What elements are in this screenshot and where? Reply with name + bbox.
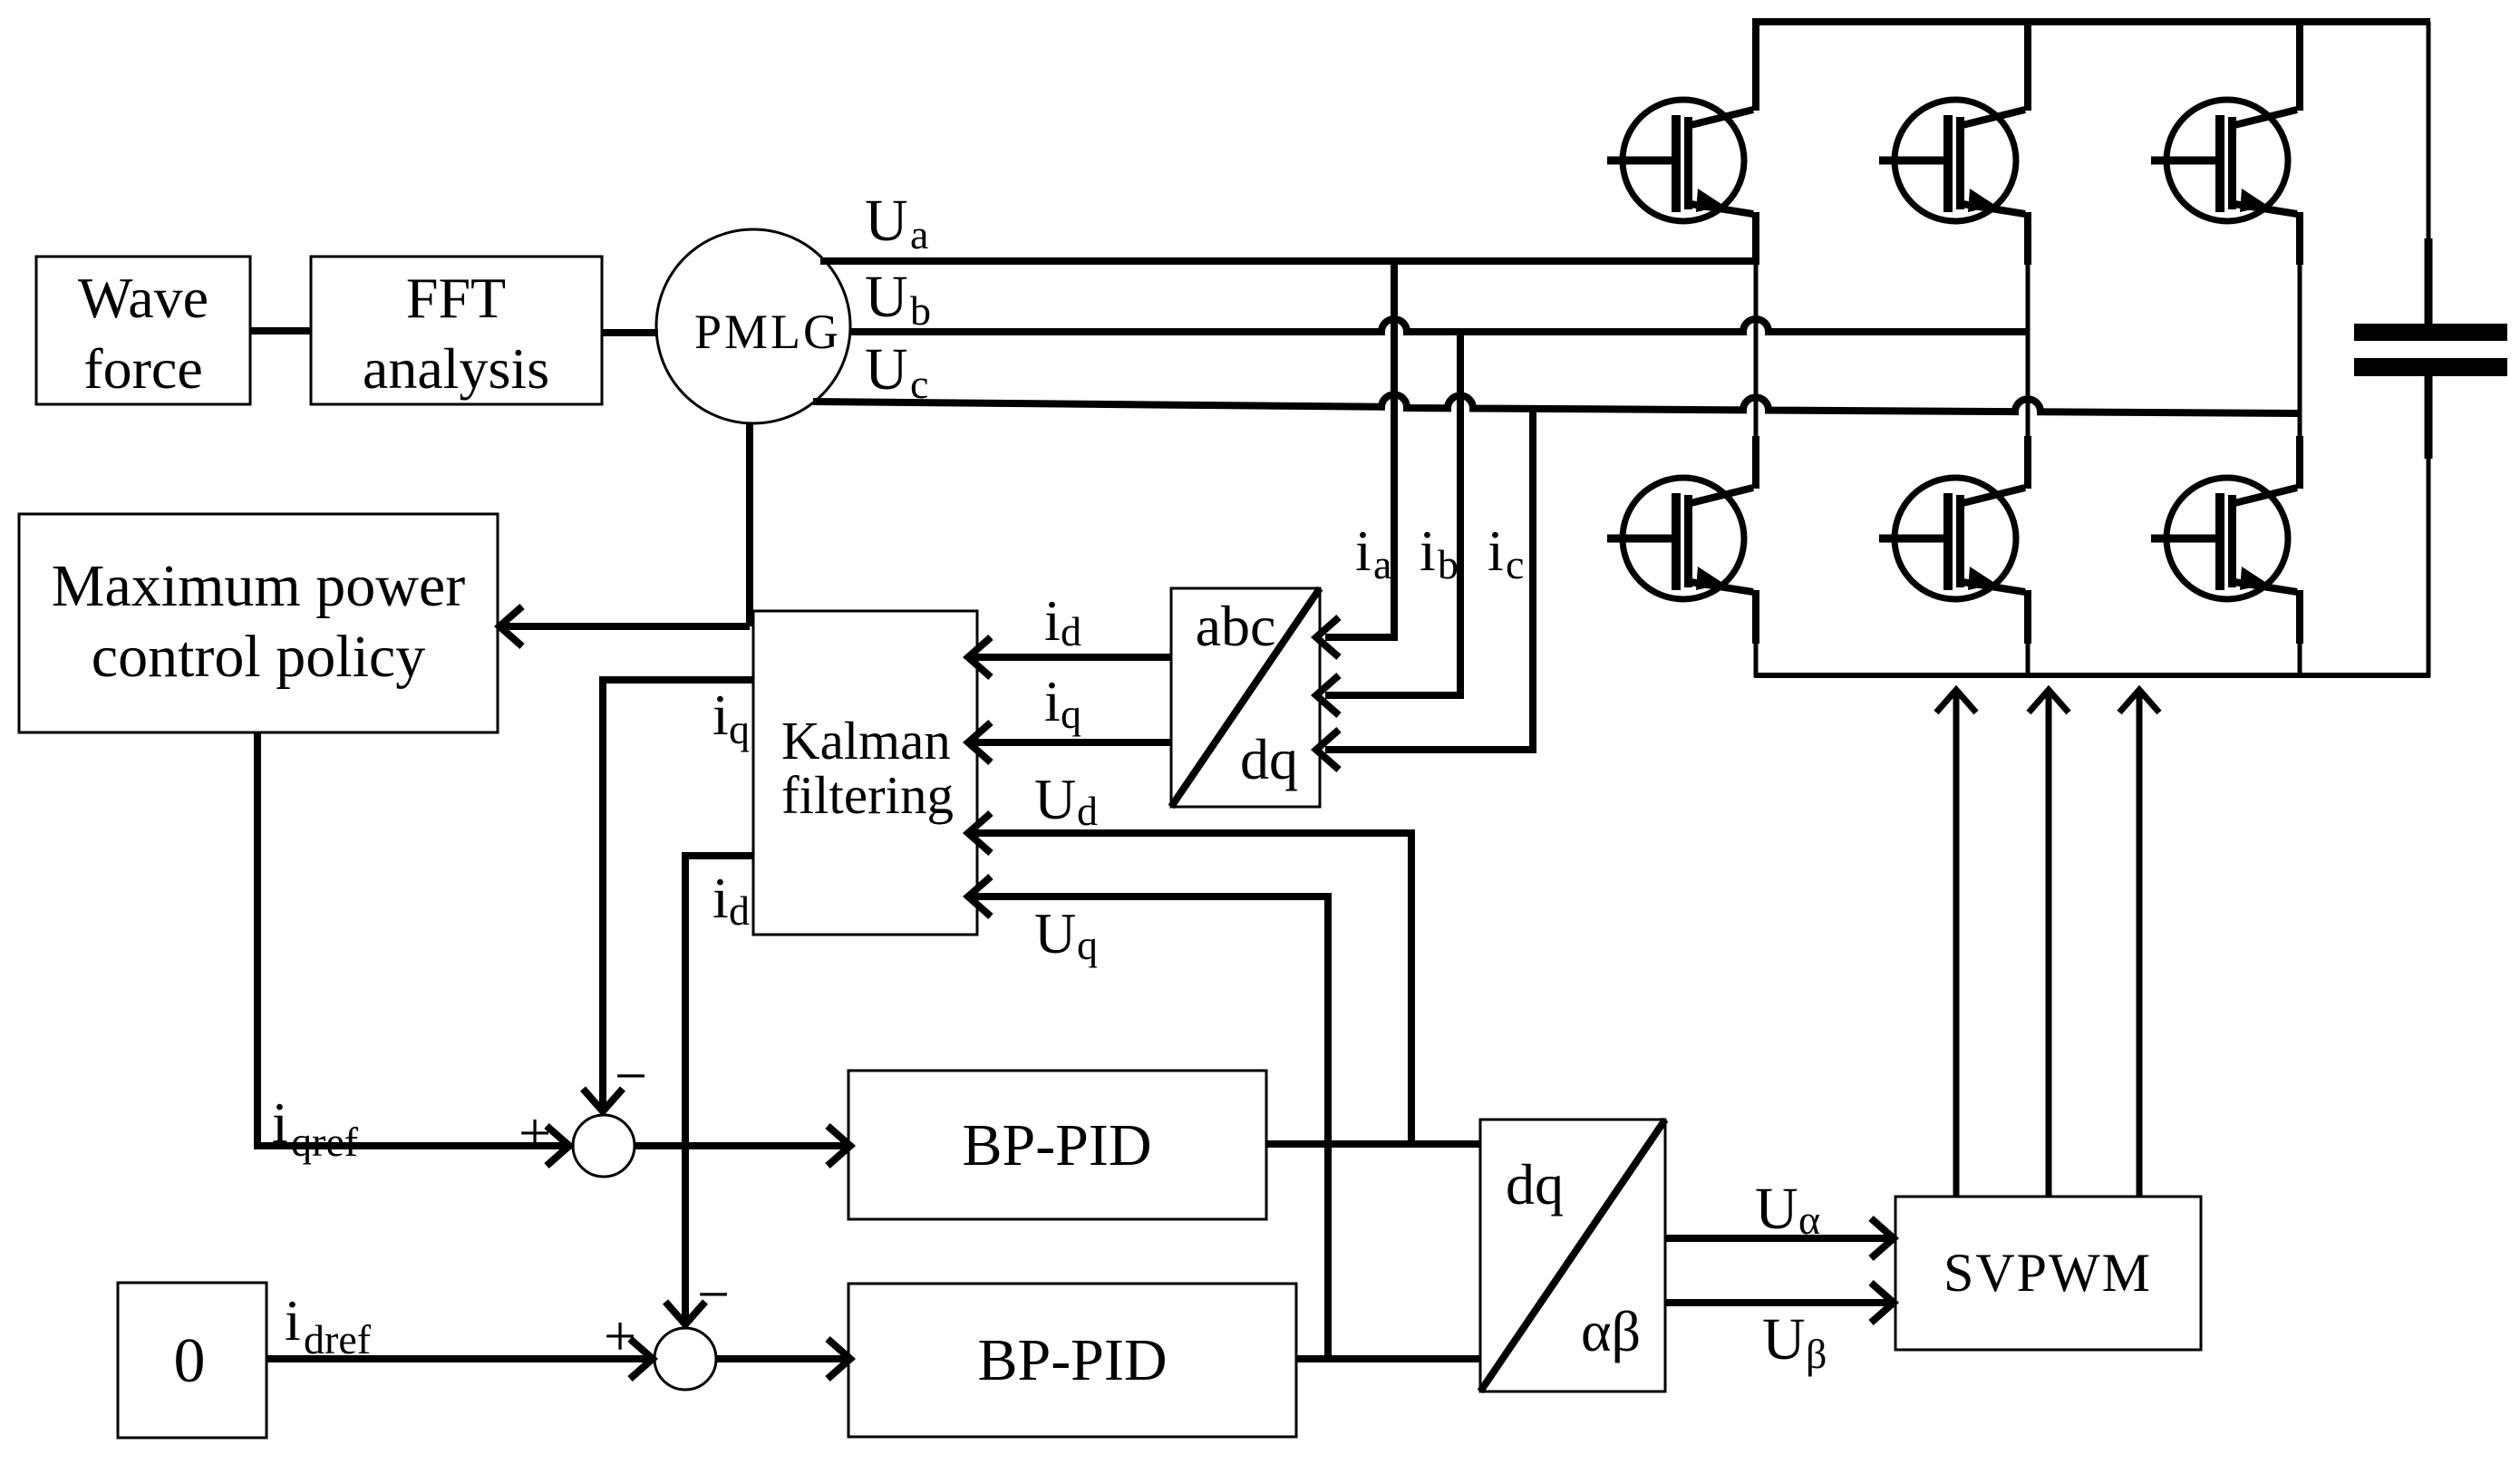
svg-text:Wave: Wave <box>78 266 208 330</box>
svg-text:U: U <box>865 264 908 330</box>
svg-text:U: U <box>865 336 908 402</box>
svg-text:d: d <box>1077 788 1098 834</box>
svg-text:qref: qref <box>291 1119 359 1165</box>
svg-text:i: i <box>272 1091 288 1155</box>
svg-text:U: U <box>1762 1306 1806 1372</box>
svg-text:a: a <box>910 211 928 257</box>
svg-text:filtering: filtering <box>781 765 954 825</box>
svg-text:+: + <box>604 1304 636 1368</box>
svg-text:i: i <box>1044 588 1061 653</box>
svg-text:i: i <box>1420 519 1436 583</box>
svg-text:U: U <box>1034 767 1076 831</box>
svg-text:analysis: analysis <box>363 336 549 401</box>
svg-text:PMLG: PMLG <box>694 305 841 359</box>
svg-text:q: q <box>1077 922 1098 968</box>
svg-text:dref: dref <box>304 1316 372 1362</box>
svg-text:β: β <box>1806 1331 1827 1377</box>
svg-text:abc: abc <box>1196 594 1276 658</box>
svg-text:d: d <box>1061 608 1081 654</box>
svg-text:i: i <box>712 866 729 930</box>
svg-text:i: i <box>712 683 729 747</box>
svg-text:d: d <box>729 887 750 934</box>
svg-text:i: i <box>1355 519 1371 583</box>
svg-text:q: q <box>1061 691 1081 737</box>
svg-text:i: i <box>285 1288 301 1353</box>
svg-text:q: q <box>729 706 750 752</box>
svg-text:Kalman: Kalman <box>781 711 951 771</box>
svg-text:Maximum power: Maximum power <box>52 553 465 619</box>
svg-text:a: a <box>1373 541 1391 587</box>
svg-text:c: c <box>1506 541 1524 587</box>
svg-text:b: b <box>910 287 931 334</box>
svg-text:i: i <box>1488 519 1504 583</box>
svg-text:b: b <box>1438 541 1459 587</box>
svg-text:dq: dq <box>1506 1152 1564 1217</box>
svg-text:dq: dq <box>1240 727 1298 791</box>
svg-text:c: c <box>910 361 928 407</box>
svg-text:αβ: αβ <box>1581 1299 1641 1363</box>
svg-text:−: − <box>697 1262 730 1326</box>
svg-text:i: i <box>1044 669 1061 733</box>
svg-text:FFT: FFT <box>406 266 506 330</box>
svg-text:U: U <box>1755 1176 1798 1242</box>
svg-text:SVPWM: SVPWM <box>1943 1243 2152 1303</box>
svg-text:U: U <box>1034 901 1076 965</box>
svg-text:+: + <box>519 1100 551 1165</box>
svg-text:α: α <box>1798 1197 1820 1243</box>
svg-text:BP-PID: BP-PID <box>962 1112 1151 1178</box>
svg-text:BP-PID: BP-PID <box>977 1327 1167 1393</box>
svg-text:force: force <box>83 336 202 401</box>
svg-text:U: U <box>865 188 908 254</box>
svg-text:control policy: control policy <box>92 624 425 690</box>
svg-text:−: − <box>615 1043 647 1108</box>
svg-text:0: 0 <box>174 1326 206 1396</box>
